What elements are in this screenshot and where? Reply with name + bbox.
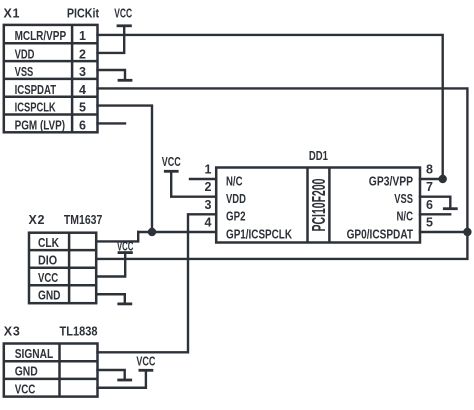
svg-text:VCC: VCC [15, 382, 36, 396]
svg-text:PCI10F200: PCI10F200 [308, 179, 329, 232]
svg-text:N/C: N/C [226, 174, 243, 188]
svg-text:2: 2 [205, 180, 212, 194]
svg-text:VSS: VSS [394, 192, 413, 206]
svg-text:VDD: VDD [15, 47, 35, 61]
svg-text:TL1838: TL1838 [60, 325, 98, 339]
svg-text:PGM (LVP): PGM (LVP) [15, 119, 66, 133]
svg-text:GND: GND [15, 365, 38, 379]
svg-text:VDD: VDD [226, 192, 246, 206]
svg-text:GP1/ICSPCLK: GP1/ICSPCLK [226, 227, 292, 241]
svg-text:VCC: VCC [162, 155, 181, 169]
svg-text:X2: X2 [29, 213, 45, 227]
svg-text:VSS: VSS [15, 65, 34, 79]
svg-text:2: 2 [79, 47, 86, 61]
svg-text:X1: X1 [4, 7, 20, 21]
svg-text:MCLR/VPP: MCLR/VPP [15, 29, 67, 43]
svg-text:VCC: VCC [114, 7, 132, 21]
svg-text:VCC: VCC [38, 271, 58, 285]
svg-text:VCC: VCC [136, 354, 155, 368]
svg-text:GP3/VPP: GP3/VPP [369, 174, 413, 188]
svg-text:8: 8 [426, 163, 433, 177]
svg-text:VCC: VCC [117, 240, 134, 254]
svg-text:7: 7 [426, 180, 433, 194]
svg-text:5: 5 [426, 216, 433, 230]
svg-text:X3: X3 [4, 325, 20, 339]
svg-text:3: 3 [79, 65, 86, 79]
svg-text:GP2: GP2 [226, 210, 246, 224]
svg-text:TM1637: TM1637 [64, 213, 102, 227]
svg-text:GP0/ICSPDAT: GP0/ICSPDAT [347, 227, 414, 241]
svg-text:4: 4 [205, 216, 212, 230]
svg-text:5: 5 [79, 101, 86, 115]
svg-text:3: 3 [205, 198, 212, 212]
svg-text:6: 6 [79, 119, 86, 133]
svg-text:4: 4 [79, 83, 86, 97]
svg-text:ICSPCLK: ICSPCLK [15, 101, 56, 115]
svg-text:ICSPDAT: ICSPDAT [15, 83, 57, 97]
svg-text:CLK: CLK [38, 236, 59, 250]
svg-text:1: 1 [79, 29, 86, 43]
svg-text:DIO: DIO [38, 253, 57, 267]
svg-text:1: 1 [205, 163, 212, 177]
svg-text:GND: GND [38, 289, 61, 303]
svg-text:SIGNAL: SIGNAL [15, 347, 54, 361]
svg-text:PICKit: PICKit [67, 7, 100, 21]
svg-text:6: 6 [426, 198, 433, 212]
svg-text:DD1: DD1 [309, 149, 328, 163]
svg-text:N/C: N/C [397, 210, 414, 224]
